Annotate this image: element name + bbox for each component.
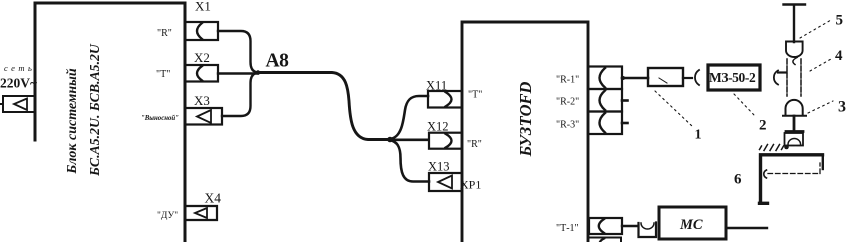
dumbbell link — [786, 116, 803, 132]
bracket inner arc — [764, 170, 767, 178]
svg-text:"R": "R" — [467, 139, 482, 150]
svg-text:XP1: XP1 — [460, 178, 481, 192]
svg-text:"R-2": "R-2" — [556, 97, 579, 108]
svg-text:"R": "R" — [157, 28, 172, 39]
svg-text:X13: X13 — [428, 160, 450, 174]
wire МС to probe — [726, 227, 767, 229]
svg-text:БС.А5.2U. БСВ.А5.2U: БС.А5.2U. БСВ.А5.2U — [87, 43, 102, 177]
node cable junction — [387, 137, 393, 143]
cable part 1 box — [648, 68, 683, 86]
wire R-1 to cable box — [622, 77, 648, 80]
svg-text:X12: X12 — [427, 120, 449, 134]
wire cable A8 — [258, 73, 389, 140]
svg-text:1: 1 — [695, 128, 702, 143]
socket cup before МС — [639, 223, 657, 238]
svg-text:"R-1": "R-1" — [556, 75, 579, 86]
connector body — [787, 59, 801, 96]
probe bracket item 6 — [760, 155, 823, 204]
connector R-1 — [588, 67, 622, 90]
svg-text:5: 5 — [836, 13, 844, 29]
connector 220V plug — [3, 96, 35, 112]
svg-text:X3: X3 — [194, 93, 210, 108]
svg-text:3: 3 — [838, 99, 846, 116]
svg-text:2: 2 — [759, 118, 767, 134]
connector X3 — [185, 108, 222, 125]
connector X1 — [185, 22, 218, 40]
svg-text:Блок системный: Блок системный — [65, 68, 80, 175]
wire X2 to merge — [218, 72, 258, 74]
leader 5 — [800, 20, 831, 38]
device МЗ-50-2 — [708, 65, 760, 90]
wire junction to X12 — [390, 139, 428, 142]
leader 3 — [808, 101, 833, 113]
svg-text:220V~: 220V~ — [0, 76, 37, 91]
svg-text:4: 4 — [835, 48, 843, 64]
connector R-2 — [588, 89, 622, 112]
wire junction to X11 — [390, 96, 428, 139]
hatch marks — [760, 145, 784, 151]
connector X4 — [185, 206, 217, 220]
block БУЗТОFD — [462, 22, 588, 242]
wire box to socket — [683, 77, 692, 79]
svg-text:МС: МС — [679, 217, 703, 233]
connector X13 — [429, 173, 462, 191]
device МС — [659, 207, 726, 239]
leader 1 — [655, 91, 693, 127]
leader 2 — [734, 94, 755, 116]
dome item 3 — [783, 100, 806, 116]
lower connector box — [785, 133, 804, 146]
svg-text:6: 6 — [734, 172, 742, 188]
connector R-3 — [588, 112, 622, 135]
node merge A8 — [256, 70, 260, 74]
mating hook arc — [793, 58, 797, 65]
svg-text:"Выносной": "Выносной" — [141, 115, 179, 122]
node R-1 wire start — [621, 76, 625, 80]
connector X12 — [429, 133, 462, 149]
svg-text:"ДУ": "ДУ" — [157, 211, 178, 221]
socket arc before МЗ-50-2 — [695, 70, 699, 85]
connector below T-1 partial — [589, 238, 621, 242]
wire T-1 to socket — [622, 225, 638, 227]
wire X3 to merge — [222, 73, 258, 117]
wire X1 to merge — [218, 31, 258, 73]
connector X2 — [185, 65, 218, 82]
svg-text:МЗ-50-2: МЗ-50-2 — [709, 70, 756, 85]
svg-text:A8: A8 — [266, 51, 290, 72]
svg-text:"Т": "Т" — [156, 69, 170, 80]
block system unit БС.А5.2U — [35, 3, 185, 242]
wire 220V stub — [0, 103, 3, 105]
wire stub R-2 — [622, 99, 628, 102]
wire junction to X13 — [390, 140, 429, 182]
connector X11 — [428, 91, 462, 108]
svg-text:"Т-1": "Т-1" — [556, 223, 579, 234]
wire МЗ-50-2 to antenna chain — [778, 71, 787, 73]
svg-text:сеть: сеть — [4, 63, 35, 73]
leader 4 — [810, 59, 831, 71]
antenna tip item 5 — [784, 5, 806, 43]
node chain bottom dot — [784, 145, 789, 150]
dashes right of dot — [791, 145, 802, 147]
svg-text:БУЗТОFD: БУЗТОFD — [516, 82, 535, 158]
svg-text:"Т": "Т" — [468, 90, 482, 101]
bracket inner dashed line — [768, 163, 820, 174]
svg-text:X1: X1 — [195, 0, 211, 14]
socket arc after МЗ-50-2 — [774, 71, 778, 85]
connector T-1 — [589, 218, 622, 234]
antenna connector upper item 4 — [786, 42, 803, 58]
svg-text:X4: X4 — [205, 191, 222, 206]
svg-text:"R-3": "R-3" — [556, 120, 579, 131]
wire stub R-3 — [622, 122, 628, 125]
svg-text:X2: X2 — [194, 50, 210, 65]
